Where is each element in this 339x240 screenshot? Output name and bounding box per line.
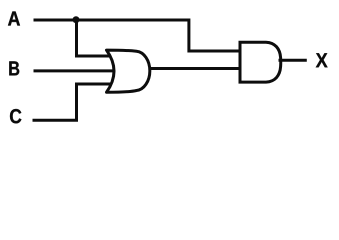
label B	[9, 61, 19, 75]
wire C (input C up and into OR gate bottom input)	[33, 84, 113, 120]
wire from OR gate output to AND bottom input	[149, 67, 241, 70]
wire from junction down to OR gate top input	[77, 20, 112, 56]
wire B (input B to OR gate middle input)	[34, 69, 116, 72]
label A	[8, 12, 20, 26]
label C	[10, 109, 21, 123]
AND gate U2	[240, 42, 281, 82]
junction dot on A wire	[73, 16, 80, 23]
OR gate U1	[107, 50, 150, 92]
label X	[316, 53, 328, 67]
wire AND output to X	[279, 59, 307, 62]
wire A (input A to corner, down, into AND top input)	[34, 20, 241, 51]
